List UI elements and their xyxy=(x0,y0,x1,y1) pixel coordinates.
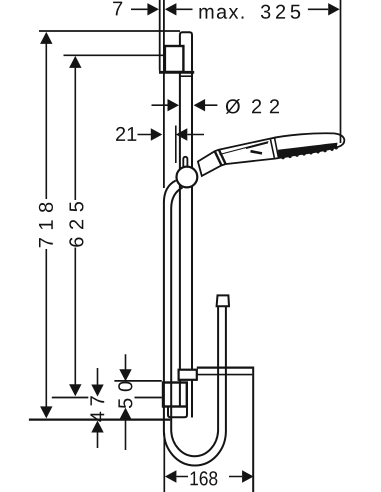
dimension 718 line xyxy=(45,44,47,408)
arrow 718 top xyxy=(40,32,52,44)
dimension 50 line xyxy=(125,354,127,450)
label 22 xyxy=(252,99,279,113)
rail joint line xyxy=(179,75,193,77)
dimension 168 line xyxy=(176,476,242,478)
porter shelf inner edge xyxy=(197,374,253,376)
porter right edge / 168 extension xyxy=(252,367,254,492)
porter shelf top edge xyxy=(197,367,254,369)
wall line right xyxy=(163,0,165,71)
head neck joint 2 xyxy=(275,138,279,158)
head neck joint 1 xyxy=(270,139,274,159)
arrow 7 left xyxy=(147,3,159,15)
label 625 xyxy=(69,202,83,247)
rail left edge xyxy=(179,74,181,408)
top bracket flange xyxy=(159,71,194,74)
porter shelf clamp xyxy=(179,370,197,380)
arrow 50 top xyxy=(119,369,131,381)
arrow 718 bottom xyxy=(40,406,52,418)
rail bottom cap xyxy=(168,406,187,417)
extension line 625 top xyxy=(64,54,164,56)
dimension 625 line xyxy=(74,68,76,386)
arrow 168 left xyxy=(165,470,177,482)
label 21 xyxy=(116,127,136,141)
arrow max325 xyxy=(328,3,340,15)
arrow 21 right xyxy=(176,128,188,140)
label 168 xyxy=(190,471,217,485)
hose down segment xyxy=(164,181,176,432)
label 325 xyxy=(261,5,300,19)
handle dark dash xyxy=(251,151,263,153)
top bracket square xyxy=(165,46,184,72)
rail right edge xyxy=(191,74,193,418)
label 7 xyxy=(113,2,122,16)
spray face band xyxy=(279,143,337,158)
handle and head outline xyxy=(198,133,344,176)
arrow 47 bottom xyxy=(91,421,103,433)
dimension max 325 line xyxy=(308,8,328,10)
dimension 21 line xyxy=(138,134,205,136)
dimension diameter 22 line xyxy=(152,104,218,106)
arrow 625 bottom xyxy=(69,384,81,396)
handle ring line 1 xyxy=(215,151,222,165)
extension line 718 bottom / 47 bottom xyxy=(29,419,170,421)
arrow 7 right xyxy=(165,3,177,15)
rail top cap xyxy=(180,32,192,71)
hose up segment xyxy=(225,307,227,431)
dimension 7 xyxy=(131,8,193,10)
arrow 50 bottom xyxy=(119,408,131,420)
wall line lower continuation xyxy=(163,74,165,189)
label 50 xyxy=(118,382,132,409)
wall line left xyxy=(159,0,161,71)
arrow 47 top xyxy=(91,385,103,397)
extension line 718 top xyxy=(39,30,180,32)
slider holder circle xyxy=(177,167,198,188)
arrow 21 left xyxy=(151,128,163,140)
extension line 625 bottom / 47 top xyxy=(52,397,162,399)
handle ring line 2 xyxy=(219,150,226,164)
slider pin xyxy=(183,157,187,167)
spray nozzle bumps xyxy=(281,146,338,159)
arrow 625 top xyxy=(69,56,81,68)
extension line 21 right xyxy=(175,126,177,164)
label 718 xyxy=(39,203,53,248)
extension line max325 right xyxy=(340,0,342,143)
arrow 168 right xyxy=(242,470,254,482)
extension line 50 top xyxy=(114,380,161,382)
hose U-bend xyxy=(164,431,226,466)
arrow d22 left xyxy=(168,99,180,111)
label max xyxy=(199,8,243,19)
arrow d22 right xyxy=(194,99,206,111)
extension line 168 left xyxy=(163,433,165,492)
label 47 xyxy=(90,396,104,422)
hose nipple xyxy=(217,295,229,306)
bottom bracket square xyxy=(163,383,187,407)
dimension 47 line xyxy=(97,368,99,448)
label diameter xyxy=(226,99,240,114)
handle detail lines xyxy=(220,142,269,155)
